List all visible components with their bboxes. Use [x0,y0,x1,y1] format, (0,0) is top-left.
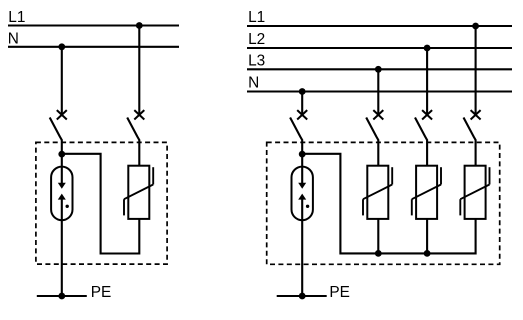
wire drop from L1 to disconnector F6 (right) [475,26,477,115]
wire varistor common bus to node B (right) [302,154,475,254]
wire drop from L1 to disconnector F2 (left) [138,26,140,115]
wire drop from N to disconnector F1 (left) [61,47,63,115]
wire L3 bus (right diagram) [247,68,512,70]
wire L1 bus (left diagram) [8,24,179,26]
wire F2 to varistor RV1 top (left) [138,140,140,166]
ground PE rail (right) [277,295,327,297]
varistor RV1 (left) [124,166,153,219]
node B junction above GDT2 (right) [299,151,306,158]
svg-text:L2: L2 [248,31,265,48]
wire drop from L3 to disconnector F4 (right) [377,69,379,114]
SPD enclosure dashed box (right) [267,142,500,264]
wire F4 to varistor RV2 top (right) [377,140,379,166]
disconnector F6 (right, L1 path) [464,110,481,140]
svg-text:L1: L1 [248,9,265,26]
node junction on L2 (right) [424,45,431,52]
svg-text:N: N [248,75,259,92]
wire N bus (right diagram) [247,90,512,92]
wire F6 to varistor RV4 top (right) [475,140,477,166]
gas discharge tube GDT2 (right) [292,154,313,296]
svg-text:PE: PE [91,284,112,301]
disconnector F3 (right, N path) [290,110,307,140]
SPD enclosure dashed box (left) [36,142,167,264]
wire L2 bus (right diagram) [247,47,512,49]
wire F3 to junction node B (right) [301,140,303,156]
disconnector F1 (left, N path) [50,110,67,140]
svg-text:L3: L3 [248,52,265,69]
wire drop from L2 to disconnector F5 (right) [426,48,428,115]
gas discharge tube GDT1 (left) [51,154,72,296]
node junction on N (right) [299,88,306,95]
disconnector F4 (right, L3 path) [366,110,383,140]
varistor RV4 (right) [460,166,489,219]
wire N bus (left diagram) [8,46,179,48]
node junction on PE (left) [58,293,65,300]
wire riser bus to RV3 bottom (right) [426,219,428,254]
disconnector F2 (left, L1 path) [127,110,144,140]
varistor RV3 (right) [412,166,441,219]
node junction on L3 (right) [375,66,382,73]
wire RV1 bottom to node A (left) [62,154,140,254]
node junction RV2 on bus (right) [375,250,382,257]
ground PE rail (left) [37,295,87,297]
svg-text:L1: L1 [8,9,25,26]
disconnector F5 (right, L2 path) [415,110,432,140]
wire drop from N to disconnector F3 (right) [301,92,303,115]
wire F5 to varistor RV3 top (right) [426,140,428,166]
node junction on L1 (right) [472,23,479,30]
svg-text:N: N [8,31,19,48]
wire riser bus to RV2 bottom (right) [377,219,379,254]
node A junction above GDT1 (left) [58,151,65,158]
node junction on N (left) [58,43,65,50]
svg-text:PE: PE [329,284,350,301]
node junction on PE (right) [299,293,306,300]
node junction on L1 (left) [136,22,143,29]
wire L1 bus (right diagram) [247,25,512,27]
node junction RV3 on bus (right) [424,250,431,257]
wire F1 to junction node A (left) [61,140,63,156]
varistor RV2 (right) [363,166,392,219]
